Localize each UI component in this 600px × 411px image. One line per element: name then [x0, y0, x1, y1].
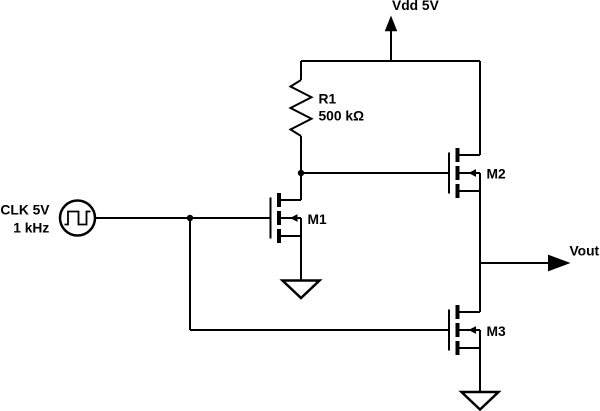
svg-text:Vout: Vout — [570, 244, 600, 259]
svg-text:M1: M1 — [308, 212, 327, 227]
svg-text:R1: R1 — [319, 92, 337, 107]
svg-text:500 kΩ: 500 kΩ — [319, 109, 365, 124]
svg-text:1 kHz: 1 kHz — [13, 220, 49, 235]
svg-text:CLK 5V: CLK 5V — [0, 202, 50, 217]
svg-text:Vdd 5V: Vdd 5V — [392, 0, 440, 13]
svg-text:M3: M3 — [487, 324, 506, 339]
svg-text:M2: M2 — [487, 167, 506, 182]
